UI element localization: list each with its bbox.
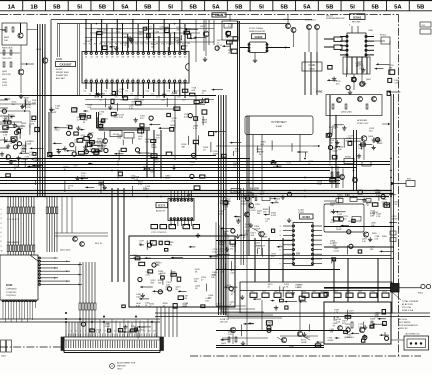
svg-text:0.022: 0.022 bbox=[251, 210, 257, 212]
svg-text:Q803: Q803 bbox=[36, 49, 42, 51]
resistor array RA001 bbox=[7, 197, 35, 256]
svg-text:5B: 5B bbox=[326, 4, 333, 10]
svg-text:33K: 33K bbox=[158, 274, 162, 276]
transistor Q861 pair bbox=[352, 74, 372, 90]
wire demod frame left bbox=[195, 20, 197, 62]
cluster power box parts bbox=[132, 240, 236, 291]
wire mid rail 8 bbox=[0, 183, 340, 185]
svg-text:1000P: 1000P bbox=[357, 64, 364, 66]
svg-text:5A: 5A bbox=[394, 4, 402, 10]
svg-text:4.7K: 4.7K bbox=[77, 120, 82, 122]
label IC001 front end bbox=[56, 58, 76, 80]
wire left edge stub 5 bbox=[0, 131, 8, 133]
svg-text:10K: 10K bbox=[158, 282, 162, 284]
block HV protect bbox=[245, 116, 313, 135]
svg-text:2.2K: 2.2K bbox=[172, 121, 177, 123]
svg-text:R63: R63 bbox=[287, 291, 290, 293]
ground G3 bbox=[196, 233, 200, 238]
block right small box bbox=[324, 204, 364, 232]
transistor Q602 regulator bbox=[338, 322, 373, 339]
transistor Q803 bbox=[36, 49, 48, 95]
svg-text:2.2K: 2.2K bbox=[317, 184, 322, 186]
svg-text:5B: 5B bbox=[417, 4, 424, 10]
svg-text:5B: 5B bbox=[144, 4, 151, 10]
svg-text:5I: 5I bbox=[77, 4, 82, 10]
svg-text:0.022: 0.022 bbox=[286, 164, 292, 166]
capacitor C611 bbox=[366, 199, 371, 203]
wire mid rail 1 bbox=[0, 158, 250, 160]
wire power box left 2 bbox=[117, 188, 119, 282]
svg-text:2.2K: 2.2K bbox=[119, 117, 124, 119]
svg-text:R66: R66 bbox=[321, 291, 324, 293]
resistor R803 network bbox=[0, 48, 20, 61]
svg-text:FRONT END: FRONT END bbox=[56, 72, 69, 74]
transistor Q452 vert out bbox=[252, 228, 266, 255]
svg-text:10K: 10K bbox=[131, 178, 135, 180]
svg-text:9: 9 bbox=[1, 246, 2, 248]
wire left edge stub 3 bbox=[0, 115, 8, 117]
svg-text:2: 2 bbox=[1, 214, 2, 216]
svg-text:AUDIO IF: AUDIO IF bbox=[156, 210, 166, 213]
svg-text:1000P: 1000P bbox=[124, 37, 131, 39]
svg-text:6: 6 bbox=[1, 232, 2, 234]
label total current bbox=[392, 292, 419, 312]
svg-text:SERVICE: SERVICE bbox=[117, 366, 126, 368]
wire mini rail B bbox=[90, 32, 200, 34]
cluster above IC301 parts bbox=[97, 27, 206, 56]
svg-text:2.2K: 2.2K bbox=[96, 332, 101, 334]
svg-text:0.022: 0.022 bbox=[332, 151, 338, 153]
label array pins bbox=[7, 219, 20, 244]
wire left pin texts bbox=[1, 209, 3, 252]
svg-text:2.2K: 2.2K bbox=[376, 216, 381, 218]
svg-text:IC001: IC001 bbox=[56, 58, 63, 61]
wire mini rail C bbox=[85, 37, 180, 39]
svg-text:Q005 Q006: Q005 Q006 bbox=[60, 250, 71, 252]
svg-text:1000P: 1000P bbox=[261, 237, 268, 239]
board outline dash-dot right bbox=[398, 15, 400, 357]
wire left edge stub 4 bbox=[0, 123, 8, 125]
cluster bottom box parts bbox=[122, 285, 238, 309]
ground G5 bbox=[203, 57, 207, 62]
svg-text:0.022: 0.022 bbox=[147, 29, 153, 31]
svg-text:5B: 5B bbox=[235, 4, 242, 10]
svg-text:CX20187: CX20187 bbox=[59, 63, 71, 67]
svg-text:1000P: 1000P bbox=[392, 218, 399, 220]
label CN002 pin numbers bbox=[65, 331, 156, 333]
svg-text:0.022: 0.022 bbox=[382, 202, 388, 204]
svg-text:5A: 5A bbox=[121, 4, 129, 10]
svg-text:2.2K: 2.2K bbox=[393, 204, 398, 206]
connector mains blob bbox=[391, 284, 400, 293]
svg-text:X-TAL: X-TAL bbox=[309, 68, 316, 71]
svg-text:2.2K: 2.2K bbox=[3, 134, 8, 136]
svg-text:33K: 33K bbox=[21, 161, 25, 163]
wire mini rail A bbox=[85, 28, 214, 30]
svg-text:33K: 33K bbox=[260, 194, 264, 196]
transistor Q201 AFT bbox=[217, 15, 238, 53]
svg-text:4.7K: 4.7K bbox=[193, 128, 198, 130]
wire ladder 3 bbox=[77, 24, 79, 95]
svg-text:RA001 ARRAY: RA001 ARRAY bbox=[7, 241, 20, 244]
wire sig step v2 bbox=[98, 112, 100, 128]
svg-text:1000P: 1000P bbox=[151, 147, 158, 149]
wire mini rail D bbox=[100, 41, 214, 43]
wire right rail 2 bbox=[324, 246, 394, 248]
svg-text:SYNC OSC: SYNC OSC bbox=[357, 123, 369, 125]
wire center drop pair2 bbox=[243, 188, 245, 265]
wire top section edge bbox=[0, 95, 216, 97]
wire mid rail 4 bbox=[0, 167, 356, 169]
wire vertical bundle left bbox=[44, 24, 46, 196]
op-amp U5 vertical out IC402 bbox=[279, 210, 322, 266]
cluster below IC301 parts bbox=[87, 88, 225, 161]
filter FL861 bbox=[374, 35, 390, 75]
wire mid rail 2 bbox=[0, 161, 390, 163]
svg-text:10: 10 bbox=[1, 250, 3, 252]
svg-text:R611: R611 bbox=[383, 291, 387, 293]
connector CN002 end cap L bbox=[61, 337, 64, 351]
svg-text:4.7K: 4.7K bbox=[165, 178, 170, 180]
svg-text:IC402: IC402 bbox=[302, 215, 310, 219]
svg-text:FL861: FL861 bbox=[380, 35, 387, 37]
wire bus top rail bbox=[51, 19, 312, 21]
svg-text:R68: R68 bbox=[347, 291, 350, 293]
wire mid drop 2 bbox=[153, 130, 155, 177]
wire nested box corners bbox=[216, 222, 282, 318]
transistor Q306 bbox=[330, 136, 374, 160]
connector SL861 bbox=[420, 22, 431, 34]
svg-text:TOTAL CURRENT: TOTAL CURRENT bbox=[402, 300, 419, 303]
wire main bus 2 bbox=[0, 193, 394, 195]
wire psu rail bbox=[240, 290, 392, 292]
svg-text:2.2K: 2.2K bbox=[219, 251, 224, 253]
wire discrim box edge bbox=[48, 112, 50, 156]
wire bottom rail c bbox=[0, 318, 160, 320]
wire right drop 1 bbox=[353, 130, 355, 190]
wire mini rail E bbox=[85, 99, 214, 101]
cluster right bottom parts bbox=[330, 189, 399, 263]
wire bottom rail d bbox=[0, 321, 160, 323]
svg-text:1000P: 1000P bbox=[349, 313, 356, 315]
wire bottom box edge bbox=[216, 345, 324, 347]
wire mid rail 6 bbox=[0, 177, 340, 179]
wire right edge pair 1 bbox=[390, 94, 392, 288]
wire seg c4 bbox=[222, 337, 268, 339]
wire vertical pair C bbox=[246, 116, 248, 256]
wire drop c3 bbox=[299, 300, 301, 330]
svg-text:10K: 10K bbox=[184, 298, 188, 300]
svg-text:0.022: 0.022 bbox=[105, 326, 111, 328]
svg-text:KEY IN: KEY IN bbox=[95, 243, 102, 245]
wire center bottom drop 3 bbox=[282, 238, 284, 282]
svg-text:4.7K: 4.7K bbox=[284, 287, 289, 289]
transistor Q801 tuner buffer bbox=[2, 23, 27, 45]
svg-text:1000P: 1000P bbox=[301, 342, 308, 344]
svg-text:T801 4.7K: T801 4.7K bbox=[2, 58, 12, 60]
connector AC interlock bbox=[391, 333, 429, 351]
svg-text:1000P: 1000P bbox=[50, 112, 57, 114]
svg-text:R801: R801 bbox=[4, 37, 10, 39]
board outline dash-dot top bbox=[0, 14, 399, 16]
svg-text:4.7K: 4.7K bbox=[138, 184, 143, 186]
svg-text:AGC AFT: AGC AFT bbox=[56, 77, 66, 80]
svg-text:AT AC 120V: AT AC 120V bbox=[402, 303, 413, 306]
svg-text:0.022: 0.022 bbox=[230, 272, 236, 274]
wire mid drop 4 bbox=[174, 95, 176, 160]
op-amp U3 demodulator IC202 bbox=[240, 28, 290, 63]
transistor Q304 sync sep bbox=[326, 95, 382, 116]
svg-text:7: 7 bbox=[1, 237, 2, 239]
wire demod drop b bbox=[208, 20, 210, 45]
transistor Q603 AF bbox=[221, 327, 237, 345]
svg-text:10K: 10K bbox=[191, 90, 195, 92]
svg-text:4: 4 bbox=[349, 25, 350, 27]
svg-text:10K: 10K bbox=[117, 138, 121, 140]
svg-text:RV301: RV301 bbox=[345, 157, 352, 159]
svg-text:0.022: 0.022 bbox=[213, 252, 219, 254]
svg-text:4.7K: 4.7K bbox=[136, 306, 141, 308]
svg-text:IC002: IC002 bbox=[6, 284, 13, 287]
svg-text:IC202 4.5MHz: IC202 4.5MHz bbox=[249, 28, 263, 30]
svg-text:10K: 10K bbox=[4, 40, 8, 42]
wire mid rail 5 bbox=[0, 170, 330, 172]
svg-text:1: 1 bbox=[1, 209, 2, 211]
wire sig step h2 bbox=[99, 129, 151, 131]
svg-text:RF UNIT: RF UNIT bbox=[352, 22, 361, 24]
wire hv box drop 2 bbox=[261, 135, 263, 191]
svg-text:5: 5 bbox=[1, 227, 2, 229]
wire vertical bundle left bbox=[39, 24, 41, 196]
wire mini rail G bbox=[90, 108, 180, 110]
wire tuner links bbox=[0, 30, 38, 129]
cluster left mid small bbox=[64, 163, 108, 194]
op-amp U6 microcontroller IC002 bbox=[0, 255, 82, 320]
transistor Q802 RF amp bbox=[2, 45, 34, 93]
wire shield box left edge bbox=[50, 20, 52, 158]
wire hv box drop 3 bbox=[299, 135, 301, 162]
wire drop c2 bbox=[261, 300, 263, 330]
svg-text:5I: 5I bbox=[259, 4, 264, 10]
cluster mid band bbox=[118, 159, 205, 197]
connector CN002 bbox=[64, 334, 160, 353]
svg-text:4.7K: 4.7K bbox=[332, 128, 337, 130]
svg-text:1000P: 1000P bbox=[377, 143, 384, 145]
ground G1 bbox=[19, 94, 23, 99]
label adjustment note bbox=[110, 362, 136, 371]
svg-text:R807: R807 bbox=[2, 79, 8, 81]
svg-text:2.2K: 2.2K bbox=[228, 334, 233, 336]
wire xtal drop 1 bbox=[304, 52, 306, 95]
capacitor C172 row bbox=[151, 225, 200, 235]
wire right drop 2 bbox=[356, 130, 358, 190]
wire mid rail 7 bbox=[0, 180, 340, 182]
wire right rail bbox=[324, 226, 394, 228]
svg-text:R65: R65 bbox=[313, 291, 316, 293]
svg-text:PTC 0.9A: PTC 0.9A bbox=[402, 306, 411, 309]
svg-text:IF AMP DET: IF AMP DET bbox=[56, 74, 69, 77]
wire mid drop 1 bbox=[146, 130, 148, 177]
svg-text:R60: R60 bbox=[251, 291, 254, 293]
wire vertical bundle left bbox=[37, 24, 39, 196]
svg-text:33K: 33K bbox=[333, 245, 337, 247]
wire ladder 4 bbox=[79, 24, 81, 95]
wire vertical pair A bbox=[237, 21, 239, 200]
svg-text:CONTROL: CONTROL bbox=[6, 295, 17, 297]
svg-text:Q206 Q207: Q206 Q207 bbox=[305, 20, 317, 22]
svg-text:IC402: IC402 bbox=[298, 210, 305, 212]
svg-text:V.DRIVE: V.DRIVE bbox=[215, 15, 224, 17]
svg-text:0.022: 0.022 bbox=[2, 85, 8, 87]
svg-text:4: 4 bbox=[1, 223, 2, 225]
svg-text:DEMODULATOR: DEMODULATOR bbox=[249, 30, 265, 33]
wire demod drop a bbox=[203, 20, 205, 51]
svg-text:ONLY: ONLY bbox=[117, 369, 123, 371]
wire mid drop 5 bbox=[195, 95, 197, 160]
svg-text:0.022: 0.022 bbox=[334, 250, 340, 252]
svg-text:4.7K: 4.7K bbox=[155, 265, 160, 267]
wire bottom rail b bbox=[155, 316, 430, 318]
svg-text:1000P: 1000P bbox=[241, 203, 248, 205]
wire seg r1 bbox=[324, 200, 336, 202]
svg-text:2SC2785: 2SC2785 bbox=[2, 74, 12, 76]
cluster right top parts bbox=[327, 62, 400, 96]
svg-text:1000P: 1000P bbox=[327, 340, 334, 342]
svg-text:2.2K: 2.2K bbox=[145, 188, 150, 190]
svg-text:1000P: 1000P bbox=[213, 154, 220, 156]
wire right col 2 bbox=[335, 115, 337, 188]
svg-text:Q452: Q452 bbox=[255, 243, 261, 245]
svg-text:2.2K: 2.2K bbox=[98, 148, 103, 150]
svg-text:AC IN 50: AC IN 50 bbox=[399, 318, 408, 321]
resistor row R6xx bbox=[250, 291, 389, 297]
wire right edge pair 2 bbox=[393, 94, 395, 288]
svg-text:2.2K: 2.2K bbox=[394, 82, 399, 84]
wire box to connector bbox=[157, 307, 177, 337]
svg-text:FOR DESIGNATION: FOR DESIGNATION bbox=[399, 324, 418, 327]
svg-text:1A: 1A bbox=[8, 4, 16, 10]
block power audio box bbox=[129, 236, 235, 307]
svg-text:TV MICRO-: TV MICRO- bbox=[6, 292, 17, 294]
transistor Q206 Q207 bbox=[305, 20, 320, 53]
svg-text:FUSE 3.15A: FUSE 3.15A bbox=[402, 309, 414, 312]
wire center rail 2 bbox=[216, 240, 292, 242]
svg-text:4.7K: 4.7K bbox=[122, 45, 127, 47]
svg-text:0.022: 0.022 bbox=[136, 296, 142, 298]
svg-text:CN01: CN01 bbox=[1, 356, 6, 358]
wire bus second rail bbox=[57, 23, 290, 25]
svg-text:10K: 10K bbox=[370, 216, 374, 218]
transistor Q005 key bbox=[55, 197, 108, 252]
svg-text:4.7K: 4.7K bbox=[129, 108, 134, 110]
wire ladder 1 bbox=[57, 24, 59, 57]
wire vertical pair D bbox=[248, 116, 250, 256]
svg-text:R69: R69 bbox=[359, 291, 362, 293]
wire IC301 top pin drops bbox=[85, 19, 185, 46]
crystal filter CF201 bbox=[302, 62, 322, 71]
svg-text:R67: R67 bbox=[335, 291, 338, 293]
svg-text:0.022: 0.022 bbox=[271, 215, 277, 217]
connector P601 jack bbox=[399, 284, 431, 294]
wire lower rail 2 bbox=[130, 258, 394, 260]
svg-text:AC INTERLOCK: AC INTERLOCK bbox=[406, 333, 421, 336]
cluster left col mid bbox=[3, 98, 44, 186]
svg-text:33K: 33K bbox=[330, 331, 334, 333]
wire vertical bundle center bbox=[225, 95, 227, 315]
svg-text:SONY: SONY bbox=[56, 69, 63, 71]
wire connector feeds bbox=[66, 319, 156, 337]
cluster center bottom parts bbox=[219, 192, 292, 258]
svg-text:P601: P601 bbox=[418, 293, 424, 295]
svg-text:5B: 5B bbox=[371, 4, 378, 10]
cluster connector top labels bbox=[81, 322, 151, 338]
svg-text:R610: R610 bbox=[371, 291, 375, 293]
svg-text:10K: 10K bbox=[337, 216, 341, 218]
svg-text:Q802: Q802 bbox=[2, 71, 8, 73]
wire mid rail 3 bbox=[0, 164, 390, 166]
svg-text:3: 3 bbox=[1, 218, 2, 220]
svg-text:9.0V: 9.0V bbox=[187, 195, 192, 197]
cluster psu parts bbox=[333, 310, 389, 343]
svg-text:IC202: IC202 bbox=[255, 35, 263, 39]
svg-text:4.7K: 4.7K bbox=[24, 100, 29, 102]
wire vertical pair B bbox=[239, 21, 241, 200]
svg-text:5B: 5B bbox=[99, 4, 106, 10]
filter CF802 discriminator bbox=[86, 131, 134, 152]
transistor Q601 bbox=[330, 212, 361, 224]
connector CN002 end cap R bbox=[160, 337, 164, 351]
wire lower rail 1 bbox=[130, 255, 391, 257]
cluster if area parts bbox=[48, 106, 109, 157]
svg-text:C810: C810 bbox=[2, 82, 8, 84]
wire vertical bundle center bbox=[218, 95, 220, 315]
potentiometer RV301 cluster bbox=[331, 157, 371, 189]
connector CN501 flyback bbox=[391, 179, 415, 187]
wire sig step v1 bbox=[96, 112, 98, 128]
svg-text:1 2 3 4 5 6 7 8: 1 2 3 4 5 6 7 8 bbox=[7, 219, 19, 221]
svg-text:5.0V: 5.0V bbox=[345, 195, 350, 197]
wire seg c5 bbox=[280, 335, 318, 337]
block psu lower box bbox=[240, 282, 392, 313]
wire center rail bbox=[216, 269, 340, 271]
wire power box left 1 bbox=[111, 188, 113, 282]
svg-text:X-RAY: X-RAY bbox=[276, 125, 283, 128]
svg-text:4.7K: 4.7K bbox=[154, 162, 159, 164]
op-amp U1 jungle IC IC301 bbox=[82, 41, 189, 102]
svg-text:2.2K: 2.2K bbox=[145, 275, 150, 277]
cluster tuner area parts bbox=[0, 98, 41, 166]
wire bottom box edge 2 bbox=[216, 347, 324, 349]
ground G4 bbox=[241, 341, 245, 346]
wire left edge stub 7 bbox=[0, 147, 8, 149]
cluster right mid parts bbox=[326, 124, 383, 159]
wire center bottom drop 1 bbox=[254, 238, 256, 282]
svg-text:1000P: 1000P bbox=[336, 229, 343, 231]
svg-text:5B: 5B bbox=[280, 4, 287, 10]
svg-text:R61: R61 bbox=[263, 291, 266, 293]
svg-text:NOT RATED: NOT RATED bbox=[399, 321, 411, 324]
svg-text:5B: 5B bbox=[53, 4, 60, 10]
transistor Q451 pair bbox=[231, 189, 276, 218]
cluster lower mid parts bbox=[240, 284, 328, 310]
svg-text:4.7K: 4.7K bbox=[26, 104, 31, 106]
svg-text:2.2K: 2.2K bbox=[163, 30, 168, 32]
svg-text:1000P: 1000P bbox=[147, 156, 154, 158]
label ac spec bbox=[399, 318, 418, 330]
wire drop c1 bbox=[246, 256, 248, 345]
svg-text:4.7K: 4.7K bbox=[156, 137, 161, 139]
wire hv box drop 1 bbox=[252, 135, 254, 191]
